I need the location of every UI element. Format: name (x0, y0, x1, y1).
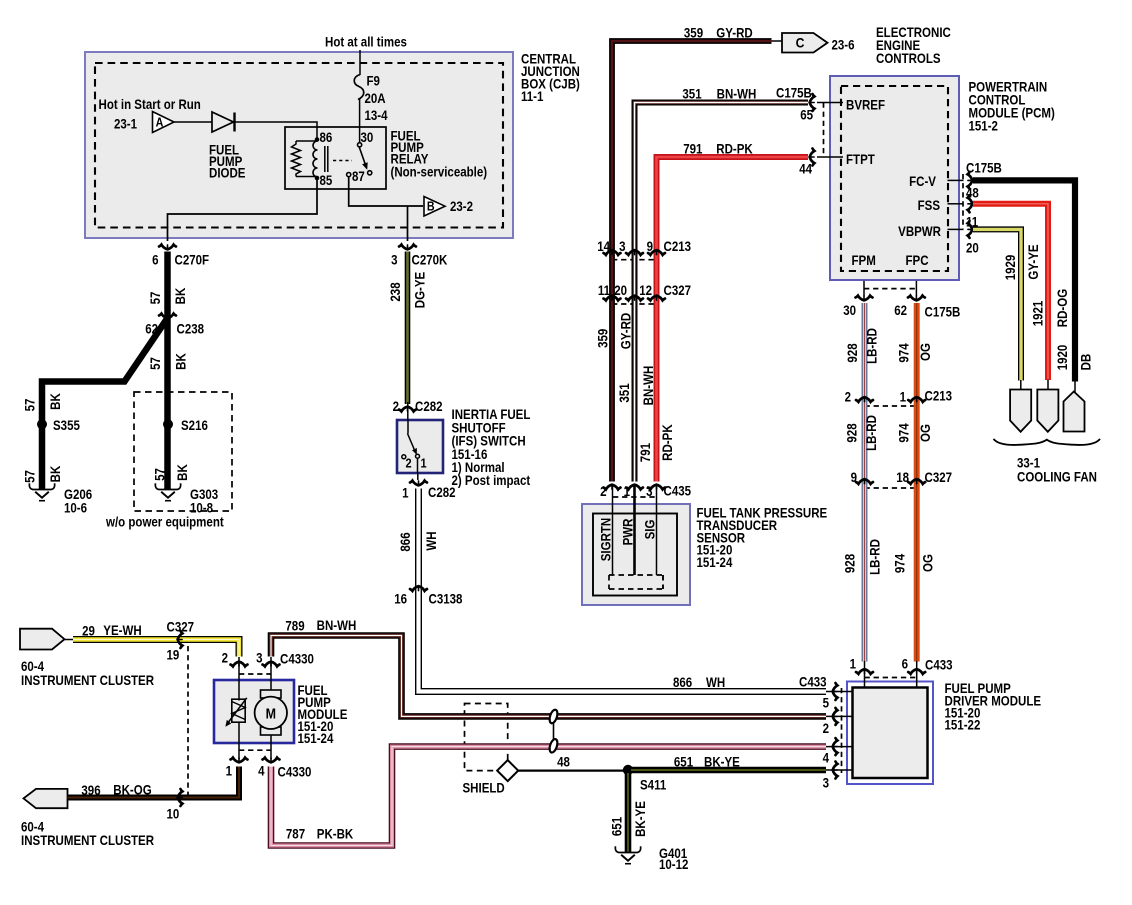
wire 57 BK main vertical (C270F to G303) (164, 252, 171, 490)
svg-text:3: 3 (391, 253, 397, 268)
svg-text:151-24: 151-24 (697, 555, 733, 570)
PCM pin44 chevron (810, 149, 815, 166)
C433 pin3 chevron (833, 762, 838, 779)
relay resistor (292, 141, 301, 177)
fuel tank pressure transducer sensor box (582, 504, 690, 605)
svg-text:351: 351 (617, 383, 632, 402)
svg-text:4: 4 (258, 764, 264, 779)
shield dashed box (465, 704, 508, 771)
fuel pump module box (214, 680, 294, 743)
cooling fan brace (994, 439, 1101, 445)
wire: 351 into PCM BVREF (817, 102, 843, 104)
svg-text:S411: S411 (640, 778, 666, 793)
svg-text:C327: C327 (167, 620, 195, 635)
svg-text:974: 974 (897, 343, 912, 362)
w/o power equipment dashed box (134, 392, 232, 511)
relay actuation dashes (333, 160, 352, 162)
svg-text:C4330: C4330 (278, 765, 312, 780)
svg-text:A: A (156, 116, 164, 130)
svg-text:2: 2 (405, 456, 411, 471)
svg-text:9: 9 (647, 239, 653, 254)
svg-text:S355: S355 (53, 418, 80, 433)
connector C433 dashed bracket (left of FPDM) (841, 688, 843, 773)
svg-text:2: 2 (393, 399, 399, 414)
svg-text:23-6: 23-6 (832, 38, 855, 53)
svg-text:BK: BK (175, 464, 190, 481)
cooling fan connector 1 (1010, 390, 1031, 432)
svg-text:GY-RD: GY-RD (619, 313, 634, 349)
C213 chevrons (14/3/9) (604, 250, 621, 255)
svg-text:SIGRTN: SIGRTN (599, 518, 614, 561)
svg-text:DIODE: DIODE (209, 166, 245, 181)
wire 396 BK-OG (68, 767, 240, 798)
svg-text:6: 6 (152, 253, 158, 268)
svg-text:C433: C433 (925, 658, 953, 673)
connector C327 dashed bracket (top) (612, 303, 657, 305)
svg-text:GY-YE: GY-YE (1026, 244, 1041, 279)
svg-text:1: 1 (420, 456, 426, 471)
wire: relay pin 87 to B and C270K exit (349, 177, 423, 207)
svg-text:C175B: C175B (776, 86, 812, 101)
wire: hot at all times feed into fuse (359, 50, 361, 75)
relay switch pin 30 contact (358, 143, 362, 147)
C282 connector chevron (399, 407, 416, 412)
connector C327 dashed link (instrument cluster) (187, 646, 189, 795)
FPM/FPC exit chevrons (856, 296, 873, 301)
wire: 791 into PCM FTPT (817, 156, 843, 158)
svg-text:1920: 1920 (1055, 345, 1070, 371)
svg-text:FTPT: FTPT (846, 152, 875, 167)
svg-text:DB: DB (1079, 354, 1094, 371)
svg-text:11-1: 11-1 (521, 89, 543, 104)
svg-text:238: 238 (388, 282, 403, 301)
svg-text:C175B: C175B (925, 305, 961, 320)
svg-text:PK-BK: PK-BK (317, 827, 353, 842)
connector C175B dashed bracket (FPM FPC) (864, 288, 916, 290)
svg-text:6: 6 (902, 657, 908, 672)
svg-text:12: 12 (639, 283, 652, 298)
svg-text:BK: BK (174, 353, 189, 370)
svg-text:57: 57 (148, 357, 163, 370)
svg-text:2: 2 (600, 484, 606, 499)
svg-text:INSTRUMENT CLUSTER: INSTRUMENT CLUSTER (21, 673, 154, 688)
svg-text:BK-YE: BK-YE (633, 801, 648, 837)
wire 29 YE-WH (73, 640, 239, 657)
svg-text:B: B (427, 200, 435, 214)
svg-text:787: 787 (286, 827, 305, 842)
svg-text:1: 1 (624, 484, 630, 499)
svg-text:9: 9 (851, 470, 857, 485)
svg-text:928: 928 (843, 554, 858, 573)
svg-text:3: 3 (823, 776, 829, 791)
svg-text:10-6: 10-6 (64, 501, 87, 516)
C4330 pin3 chevron (263, 662, 280, 667)
svg-text:10-12: 10-12 (659, 857, 688, 872)
central junction box CJB outline (85, 52, 513, 238)
C4330 pin4 chevron (263, 758, 280, 763)
connector C213 dashed bracket (top) (612, 259, 657, 261)
svg-text:BK: BK (173, 288, 188, 305)
svg-text:C270F: C270F (175, 253, 210, 268)
svg-text:19: 19 (167, 648, 180, 663)
splice S411 (623, 765, 633, 775)
svg-text:C238: C238 (177, 322, 205, 337)
svg-text:OG: OG (921, 554, 936, 572)
C327 chevron on YE-WH (pin 19) (178, 631, 183, 648)
svg-text:44: 44 (799, 162, 812, 177)
instrument cluster connector (29 YE-WH) (20, 629, 65, 650)
svg-text:30: 30 (361, 130, 374, 145)
twisted pair loops (548, 709, 559, 754)
svg-text:F9: F9 (367, 74, 380, 89)
wire: 651 into FPDM pin3 (826, 769, 853, 771)
wire 1929 GY-YE (VBPWR to cooling fan) (973, 229, 1021, 380)
svg-text:BN-WH: BN-WH (317, 618, 357, 633)
svg-text:928: 928 (845, 343, 860, 362)
svg-text:FPC: FPC (906, 253, 929, 268)
connector C175B dashed bracket (FC-V FSS VBPWR) (962, 174, 964, 229)
svg-text:16: 16 (394, 592, 407, 607)
svg-text:10-8: 10-8 (190, 501, 213, 516)
svg-text:1: 1 (226, 764, 232, 779)
svg-text:BN-WH: BN-WH (717, 87, 757, 102)
svg-text:1929: 1929 (1003, 255, 1018, 281)
svg-text:151-22: 151-22 (945, 718, 981, 733)
wire: fuse to relay pin 30 (359, 99, 361, 143)
svg-text:OG: OG (918, 424, 933, 442)
svg-text:PWR: PWR (621, 519, 636, 546)
wire 791 RD-PK (657, 157, 809, 482)
svg-text:866: 866 (398, 532, 413, 551)
svg-text:S216: S216 (181, 418, 208, 433)
svg-text:13-4: 13-4 (365, 108, 388, 123)
svg-text:60-4: 60-4 (21, 659, 44, 674)
C3138 connector chevron (410, 586, 427, 591)
svg-text:651: 651 (674, 755, 693, 770)
svg-text:57: 57 (23, 470, 38, 483)
svg-text:RD-OG: RD-OG (1055, 289, 1070, 327)
svg-text:57: 57 (23, 399, 38, 412)
svg-text:14: 14 (597, 239, 610, 254)
fuel pump module internals: motor M (255, 690, 287, 735)
svg-text:BK: BK (48, 393, 63, 410)
connector pentagon C (23-6) (782, 33, 828, 53)
svg-text:C3138: C3138 (429, 592, 463, 607)
wire: pin2 into FPM (238, 657, 240, 701)
svg-text:LB-RD: LB-RD (868, 539, 883, 575)
C433 top chevrons (1/6) (856, 669, 873, 674)
wire 866 WH (C282 to C433 pin5) (419, 489, 827, 692)
svg-text:23-2: 23-2 (450, 199, 473, 214)
wire 1920 DB (FC-V to cooling fan) (973, 180, 1075, 381)
C270K exit chevron (399, 245, 416, 250)
svg-text:23-1: 23-1 (114, 117, 137, 132)
svg-text:C282: C282 (415, 399, 443, 414)
svg-text:3: 3 (256, 651, 262, 666)
wire 651 BK-YE to FPDM pin3 (631, 767, 826, 774)
svg-text:C435: C435 (664, 484, 692, 499)
svg-text:396: 396 (81, 783, 100, 798)
splice S216 (163, 419, 173, 429)
svg-text:2: 2 (222, 651, 228, 666)
wire: diode to relay pin 86 (235, 122, 318, 139)
wire stub to C pentagon (772, 40, 783, 42)
connector C435 dashed bracket (613, 496, 656, 498)
svg-text:866: 866 (673, 675, 692, 690)
PCM FPM/FPC pin lines (863, 281, 865, 296)
svg-text:FPM: FPM (852, 253, 876, 268)
svg-text:10: 10 (167, 807, 180, 822)
svg-text:86: 86 (320, 130, 333, 145)
fuel pump driver module box (847, 682, 933, 785)
wire 351 BN-WH (635, 103, 809, 482)
FTP sensor pin lines SIGRTN/PWR/SIG (612, 485, 614, 576)
wire: FPM to pin1 (238, 722, 240, 759)
svg-text:791: 791 (638, 443, 653, 462)
wire 787 PK-BK (FPM pin4 to FPDM pin4) (271, 747, 826, 846)
svg-text:62: 62 (894, 303, 907, 318)
wire: 866 into FPDM pin 5 (826, 691, 853, 693)
svg-text:COOLING FAN: COOLING FAN (1017, 470, 1097, 485)
IFS switch internals (402, 420, 420, 473)
ground G206 (29, 483, 54, 500)
wire 789 BN-WH (FPM pin3 to FPDM pin2) (271, 636, 826, 717)
svg-text:57: 57 (148, 292, 163, 305)
svg-text:GY-RD: GY-RD (716, 26, 752, 41)
svg-text:LB-RD: LB-RD (864, 415, 879, 451)
wire 57 BK branch to S355/G206 (42, 318, 168, 489)
C327 chevrons (11/20/12) (604, 296, 621, 301)
C433 pin4 chevron (833, 738, 838, 755)
svg-text:C433: C433 (799, 675, 827, 690)
svg-text:RD-PK: RD-PK (716, 142, 752, 157)
wire 359 GY-RD (612, 41, 772, 482)
svg-text:2: 2 (845, 390, 851, 405)
wire 1921 RD-OG (FSS to cooling fan) (973, 204, 1048, 380)
IFS exit chevron (1 C282) (417, 473, 419, 480)
svg-text:(Non-serviceable): (Non-serviceable) (391, 165, 488, 180)
connector C213 dashed bracket (mid) (865, 405, 917, 407)
relay node lines and pins 86/85 (296, 140, 317, 142)
fuel pump module internals: resistor (225, 698, 246, 727)
C4330 pin1 chevron (231, 758, 248, 763)
svg-text:11: 11 (598, 283, 610, 298)
svg-text:SHIELD: SHIELD (463, 781, 505, 796)
svg-text:48: 48 (966, 186, 979, 201)
shield drain diamond (497, 760, 518, 781)
svg-text:20: 20 (966, 241, 979, 256)
svg-text:OG: OG (918, 343, 933, 361)
C270F exit chevron (159, 245, 176, 250)
wire: relay pin 85 to C270F exit (168, 179, 318, 241)
C435 chevrons (2/1/3) (604, 485, 621, 490)
svg-text:w/o power equipment: w/o power equipment (105, 515, 224, 530)
svg-text:3: 3 (646, 484, 652, 499)
C238 connector chevron (159, 314, 176, 319)
svg-text:FC-V: FC-V (909, 174, 936, 189)
wire: A to diode (174, 121, 212, 123)
fuel pump relay box (285, 127, 386, 189)
svg-text:Hot in Start or Run: Hot in Start or Run (99, 97, 201, 112)
svg-text:2: 2 (823, 721, 829, 736)
wire: C282 into IFS (407, 402, 409, 420)
svg-text:LB-RD: LB-RD (865, 328, 880, 364)
svg-text:Hot at all times: Hot at all times (325, 35, 407, 50)
svg-text:359: 359 (596, 329, 611, 348)
cooling fan connector 2 (1037, 390, 1058, 432)
svg-text:DG-YE: DG-YE (413, 272, 428, 308)
svg-text:BVREF: BVREF (846, 98, 885, 113)
wire 974 OG (FPC to C433 pin6) (914, 303, 920, 662)
wire stub to yellow (65, 639, 75, 641)
wire 928 LB-RD (FPM to C433 pin1) (862, 303, 868, 662)
cooling fan connector stubs (1020, 380, 1022, 390)
svg-text:65: 65 (800, 108, 813, 123)
svg-text:C213: C213 (925, 389, 953, 404)
wire: 789 into FPDM pin2 (826, 715, 853, 717)
svg-text:C4330: C4330 (280, 652, 314, 667)
wire: motor to pin4 (270, 735, 272, 759)
C433 pin5 chevron (833, 683, 838, 700)
svg-text:11: 11 (966, 215, 978, 230)
wire: pin3 into FPM motor (270, 657, 272, 690)
svg-text:1: 1 (850, 657, 856, 672)
ground G303 (155, 483, 180, 500)
svg-text:20A: 20A (365, 91, 386, 106)
svg-text:2) Post impact: 2) Post impact (452, 473, 531, 488)
C175B chevrons at PCM outputs (968, 172, 973, 189)
relay coil (313, 141, 318, 177)
svg-text:M: M (266, 705, 276, 721)
inertia fuel shutoff IFS switch box (397, 420, 443, 473)
connector C433 dashed bracket (top of FPDM) (865, 677, 917, 679)
svg-text:C270K: C270K (412, 253, 448, 268)
connector arrow B (23-2) (424, 197, 445, 217)
svg-text:BK-OG: BK-OG (113, 783, 151, 798)
svg-text:351: 351 (682, 87, 701, 102)
PCM pin65 chevron (810, 94, 815, 111)
C327 chevrons (9/18) (856, 479, 873, 484)
svg-text:151-2: 151-2 (969, 119, 998, 134)
wire 651 BK-YE to ground (625, 773, 632, 853)
shield drain wire 48 (518, 769, 624, 771)
svg-text:3: 3 (619, 239, 625, 254)
connector C327 dashed bracket (mid) (865, 487, 917, 489)
svg-text:C213: C213 (664, 239, 692, 254)
svg-text:VBPWR: VBPWR (898, 224, 941, 239)
ground G401 (615, 846, 640, 863)
splice S355 (37, 419, 47, 429)
C4330 pin2 chevron (231, 662, 248, 667)
C213 chevrons (2/1) (856, 397, 873, 402)
svg-text:359: 359 (684, 26, 703, 41)
svg-text:1921: 1921 (1031, 301, 1046, 327)
svg-text:C327: C327 (925, 470, 953, 485)
svg-text:85: 85 (320, 173, 333, 188)
instrument cluster connector (396 BK-OG) (24, 789, 68, 808)
relay core lines (324, 146, 326, 172)
svg-text:INSTRUMENT CLUSTER: INSTRUMENT CLUSTER (21, 833, 154, 848)
svg-text:RD-PK: RD-PK (660, 424, 675, 460)
FTP sensor internal dashed bracket (609, 574, 663, 576)
relay switch blade (359, 147, 366, 168)
svg-text:48: 48 (557, 755, 570, 770)
svg-text:C175B: C175B (966, 161, 1002, 176)
svg-text:SIG: SIG (643, 520, 658, 540)
svg-text:YE-WH: YE-WH (103, 623, 141, 638)
svg-text:BK: BK (48, 466, 63, 483)
svg-text:57: 57 (153, 468, 168, 481)
svg-text:87: 87 (352, 169, 365, 184)
wires into FPDM top (864, 661, 866, 688)
C433 pin2 chevron (833, 708, 838, 725)
svg-text:651: 651 (610, 817, 625, 836)
wire: 787 into FPDM pin4 (826, 746, 853, 748)
svg-text:151-24: 151-24 (298, 731, 334, 746)
fuse F9 (354, 75, 364, 100)
C327 chevron on BK-OG (pin 10) (178, 789, 183, 806)
svg-text:62: 62 (145, 322, 158, 337)
PCM pin lines FC-V FSS VBPWR (948, 179, 964, 181)
powertrain control module PCM outline (830, 76, 959, 280)
fuel pump diode D1 (212, 112, 235, 132)
svg-text:791: 791 (683, 142, 702, 157)
connector C175B dashed bracket (BVREF FTPT) (823, 103, 825, 158)
svg-text:FSS: FSS (918, 198, 940, 213)
svg-text:CONTROLS: CONTROLS (876, 51, 941, 66)
svg-text:1: 1 (402, 486, 408, 501)
svg-text:BN-WH: BN-WH (641, 366, 656, 406)
svg-text:928: 928 (845, 423, 860, 442)
connector arrow A (hot in start or run) (153, 112, 175, 133)
svg-text:18: 18 (896, 470, 909, 485)
svg-text:33-1: 33-1 (1017, 456, 1040, 471)
svg-text:974: 974 (897, 423, 912, 442)
svg-text:C: C (796, 35, 805, 51)
relay switch pin 87 contacts (347, 173, 351, 177)
wire 238 DG-YE (C270K to C282) (405, 252, 411, 405)
svg-text:974: 974 (893, 554, 908, 573)
svg-text:30: 30 (843, 303, 856, 318)
svg-text:4: 4 (823, 751, 829, 766)
cooling fan connector 3 (1064, 392, 1085, 432)
svg-text:29: 29 (82, 624, 95, 639)
svg-text:WH: WH (424, 531, 439, 550)
svg-text:1: 1 (900, 390, 906, 405)
connector C4330 dashed brackets (239, 673, 271, 675)
svg-text:C327: C327 (664, 283, 692, 298)
svg-text:WH: WH (706, 675, 725, 690)
svg-text:5: 5 (823, 696, 829, 711)
svg-text:BK-YE: BK-YE (704, 755, 740, 770)
svg-text:789: 789 (285, 619, 304, 634)
svg-text:C282: C282 (428, 485, 456, 500)
svg-text:20: 20 (614, 283, 627, 298)
